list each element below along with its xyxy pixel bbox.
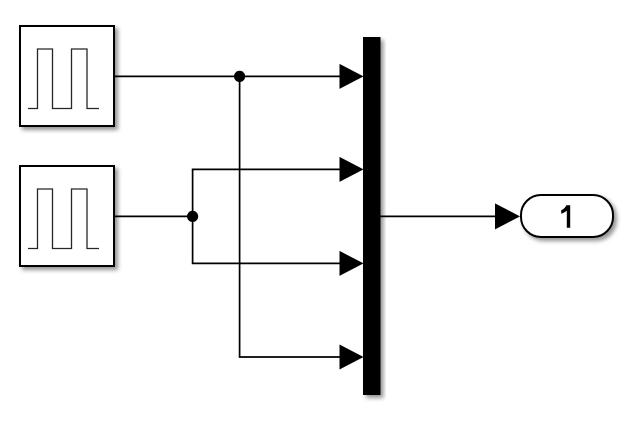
arrowhead at mux input 2 — [340, 157, 364, 182]
junction node on wire 1 — [234, 71, 245, 82]
outport block 1 (rounded body) — [521, 195, 613, 237]
wire: mux output to outport — [381, 215, 497, 217]
wire: pulse1 output to mux input 1 — [115, 75, 341, 77]
wire: branch down from junction 1 — [239, 76, 241, 357]
wire: branch to mux input 3 — [192, 262, 341, 264]
wire: pulse2 output to junction 2 — [115, 215, 193, 217]
wire: branch up from junction 2 — [192, 169, 194, 216]
mux block (vertical bar) — [363, 37, 381, 395]
pulse generator block 2 (square-wave icon) — [28, 189, 99, 249]
arrowhead at mux input 3 — [340, 251, 364, 276]
wire: branch down from junction 2 — [192, 216, 194, 263]
arrowhead at mux input 1 — [340, 64, 364, 89]
arrowhead at mux input 4 — [340, 345, 364, 370]
pulse generator block 1 (square-wave icon) — [28, 49, 99, 109]
pulse generator block 2 (body) — [20, 166, 114, 266]
outport label "1" — [561, 205, 570, 228]
arrowhead at outport input — [495, 203, 520, 229]
junction node on wire 2 — [187, 211, 198, 222]
pulse generator block 1 (body) — [20, 26, 114, 126]
wire: branch to mux input 4 — [239, 356, 341, 358]
wire: branch to mux input 2 — [192, 168, 341, 170]
